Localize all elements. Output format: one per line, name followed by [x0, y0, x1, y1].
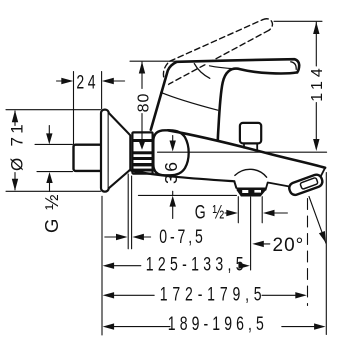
dim 0-7,5 ext lines [127, 174, 129, 249]
dim 125 arrows [103, 263, 115, 269]
svg-text:114: 114 [309, 64, 326, 102]
dim 80 stem [141, 62, 143, 89]
spout underside left [131, 171, 234, 182]
dashed handle raised position [163, 19, 272, 85]
spout top edge [168, 130, 325, 168]
dim 36 arrows [170, 141, 176, 152]
wall connector G1/2 [74, 145, 103, 171]
dim 36 stems [172, 136, 174, 143]
underside right of aerator [266, 183, 289, 190]
body column front edge [151, 62, 177, 130]
wall reference line [101, 196, 103, 335]
dim 80 arrows [139, 62, 145, 74]
dim 24 tails [57, 80, 65, 82]
ext line outlet tip [307, 199, 309, 306]
svg-text:24: 24 [76, 71, 99, 93]
spout dome arc [235, 169, 267, 177]
dim 24 arrows [61, 78, 73, 84]
dim G12 left stems [48, 126, 50, 135]
spout end face [316, 168, 325, 186]
dim 172 tails [113, 294, 154, 296]
dim O71 stem [14, 111, 16, 126]
dim G12 left arrows [46, 133, 52, 144]
spout bottom plane line [138, 194, 236, 196]
dim 0-7,5 tails [105, 236, 116, 238]
svg-text:80: 80 [135, 93, 152, 113]
svg-text:189-196,5: 189-196,5 [168, 313, 268, 335]
handle blade top [177, 59, 299, 72]
dim 114 stem [315, 22, 317, 66]
svg-text:20°: 20° [273, 235, 305, 256]
20 deg arrows [252, 241, 263, 247]
aerator [237, 188, 266, 197]
svg-text:G ½: G ½ [41, 193, 62, 233]
ext line spout far point [325, 173, 327, 335]
dim G12 left ticks [35, 143, 73, 145]
handshower outlet [288, 173, 324, 196]
dim 189 tails [113, 326, 170, 328]
aerator G12 ext lines [237, 197, 239, 223]
dim O71 ticks [6, 109, 101, 111]
diverter knob [240, 123, 261, 143]
20 deg slant line [309, 197, 326, 244]
blade scoop shading 2 [210, 66, 237, 69]
svg-text:36: 36 [161, 160, 181, 184]
blade scoop shading [194, 64, 210, 79]
cartridge sleeve [132, 132, 152, 173]
20 deg left tail [263, 243, 270, 245]
aerator G12 tails [225, 212, 228, 214]
valve body capsule [153, 130, 188, 175]
dim 0-7,5 arrows [116, 234, 128, 240]
svg-text:125-133,5: 125-133,5 [146, 253, 248, 275]
blade tip inner notch [291, 62, 296, 70]
underside step [234, 181, 236, 188]
body seam [161, 92, 218, 110]
escutcheon back plate [101, 110, 109, 192]
aerator G12 arrows [226, 210, 238, 216]
svg-text:G ½: G ½ [195, 201, 226, 223]
dim 189 arrows [103, 323, 115, 329]
dim 172 arrows [103, 292, 115, 298]
handle underside + neck [218, 69, 297, 141]
dim 24 ext lines [73, 72, 75, 145]
deck plane line [158, 151, 327, 153]
dim O71 arrows [12, 110, 18, 122]
aerator center line [250, 197, 252, 270]
dim 114 arrows [313, 22, 319, 34]
knob neck [243, 143, 245, 147]
dim 114 tick [274, 20, 322, 22]
dim 125 tails [113, 265, 141, 267]
svg-text:0-7,5: 0-7,5 [159, 226, 205, 248]
escutcheon cone [109, 113, 131, 188]
svg-text:Ø 71: Ø 71 [8, 121, 27, 171]
svg-text:172-179,5: 172-179,5 [160, 283, 267, 305]
dim 80 tick [130, 60, 176, 62]
